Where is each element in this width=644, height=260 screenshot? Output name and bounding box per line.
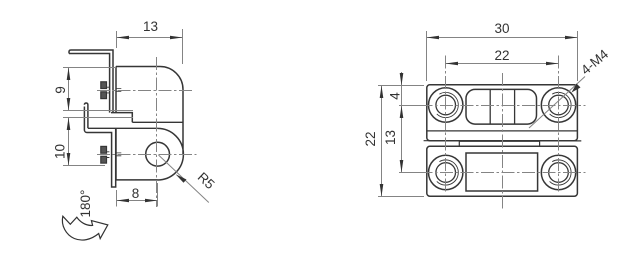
svg-text:R5: R5: [195, 169, 218, 192]
left view: dimension 13 extension lines: [117, 29, 183, 64]
left view: 180 degree rotation arrow: [62, 216, 107, 240]
left view: upper screw shank: [107, 87, 110, 93]
right view: dimension 22 left line: [381, 86, 383, 197]
left view: dimension 13 arrows: [117, 36, 183, 40]
right view: dimension 13 arrows: [400, 106, 404, 173]
right view: dimension 30 arrows: [427, 36, 578, 40]
right view: left holes vertical centerline: [445, 56, 447, 193]
left view: dimension 9 line: [68, 68, 70, 111]
right view: top-right hole counterbore: [541, 88, 575, 122]
svg-text:13: 13: [143, 19, 158, 34]
right view: leaf parting line left: [424, 141, 582, 146]
right view: top-right hole bore: [549, 95, 569, 115]
left view: dimension 8 extension lines: [117, 183, 158, 207]
right view: 4-M4 leader line: [529, 77, 585, 129]
left view: lower leaf bent plate: [84, 103, 115, 187]
left view: upper step block: [111, 113, 132, 123]
svg-text:4-M4: 4-M4: [578, 46, 612, 78]
right view: knuckle divider left: [489, 89, 491, 124]
svg-text:4: 4: [387, 92, 402, 100]
right view: dimension 4 arrow: [400, 73, 404, 86]
left view: dimension 9 arrows: [67, 68, 71, 111]
left view: hinge body outline: [116, 67, 183, 181]
left view: dimension 8 line: [117, 200, 158, 202]
left view: upper screw Q1 head: [101, 82, 107, 99]
right view: right holes vertical centerline: [558, 56, 560, 193]
right view: top leaf inner bend line: [427, 130, 578, 132]
right view: bottom-right hole bore: [549, 163, 569, 183]
left view: dimension 13 line: [117, 37, 183, 39]
left view: dimension 8 arrows: [117, 199, 158, 203]
right view: bottom leaf plate outline: [427, 146, 578, 196]
left view: pivot hole circle: [146, 142, 170, 166]
svg-text:9: 9: [53, 86, 68, 94]
left view: lower screw shank: [107, 152, 110, 158]
right view: knuckle slot rounded rect: [466, 89, 537, 124]
right view: dimension 30 extension lines: [427, 31, 578, 81]
right view: bottom-left hole bore: [436, 163, 456, 183]
svg-text:8: 8: [132, 186, 140, 201]
svg-text:180°: 180°: [78, 190, 93, 218]
right view: bottom holes horizontal centerline: [399, 172, 586, 174]
right view: dimension 4 and 13 line: [401, 72, 403, 173]
right view: top-right hole thread arc: [550, 92, 572, 117]
left view: lower hole centerline: [97, 154, 197, 156]
left view: R5 leader arrow: [176, 174, 187, 183]
right view: bottom-left hole thread arc: [437, 160, 459, 185]
left view: upper screw thread lines: [116, 89, 121, 92]
left view: vertical centerline: [156, 57, 158, 207]
svg-text:22: 22: [494, 48, 509, 63]
right view: dimension 22 top arrows: [446, 62, 559, 66]
right view: bottom leaf center rectangle: [466, 153, 538, 191]
left view: upper screw centerline: [97, 90, 192, 92]
svg-text:10: 10: [52, 144, 67, 159]
svg-text:13: 13: [383, 130, 398, 145]
right view: bottom-right hole counterbore: [541, 155, 575, 189]
left view: dimension 10 arrows: [67, 118, 71, 166]
left view: R5 leader line: [159, 155, 209, 203]
left view: lower screw Q2 head: [101, 146, 107, 163]
left view: knuckle interface line upper: [132, 121, 183, 123]
left view: dimension 10 line: [68, 118, 70, 166]
right view: dimension 22 top line: [446, 63, 559, 65]
right view: top-left hole bore: [436, 95, 456, 115]
svg-text:30: 30: [494, 21, 509, 36]
right view: dimension 30 line: [427, 37, 578, 39]
right view: top holes horizontal centerline: [399, 105, 586, 107]
right view: 4-M4 leader arrow: [572, 84, 581, 93]
right view: knuckle divider right: [514, 89, 516, 124]
right view: top leaf plate outline: [427, 85, 578, 141]
left view: dimension 9 and 10 extension lines: [63, 68, 133, 166]
svg-text:22: 22: [363, 131, 378, 146]
left view: upper leaf bent plate: [69, 50, 113, 113]
right view: bottom-right hole thread arc: [550, 160, 572, 185]
left view: knuckle interface line lower: [88, 127, 158, 129]
right view: left side extension lines: [378, 86, 424, 197]
right view: bottom-left hole counterbore: [429, 155, 463, 189]
right view: top-left hole thread arc: [437, 92, 459, 117]
right view: main vertical centerline: [502, 73, 504, 209]
right view: top-left hole counterbore: [429, 88, 463, 122]
left view: lower screw thread lines: [116, 153, 121, 156]
right view: dimension 22 left arrows: [380, 86, 384, 197]
